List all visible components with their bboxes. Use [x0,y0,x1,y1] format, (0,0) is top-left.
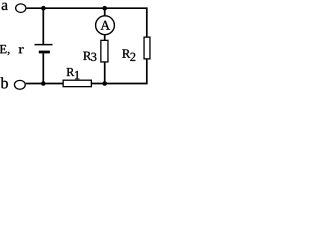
resistor R1 [63,80,91,86]
wire bottom bus left segment [26,83,63,85]
wire R3 bottom lead [104,62,106,84]
terminal b [14,80,25,89]
label R1 [67,68,75,76]
wire right side down to R2 [146,7,148,36]
wire R2 bottom to bottom bus [146,59,148,85]
wire top bus [27,7,147,9]
label E, r [0,45,9,55]
battery E,r long plate [35,44,53,46]
label b [1,77,8,88]
label a [2,3,8,10]
wire bottom bus right segment [92,83,147,85]
junction dot top ammeter node [102,6,107,11]
wire ammeter to R3 [104,35,106,41]
resistor R2 [144,37,150,59]
terminal a [16,4,26,13]
junction dot top battery node [41,6,46,11]
ammeter A [96,16,115,35]
resistor R3 [101,40,108,62]
wire top to ammeter [104,8,106,16]
wire battery top lead [42,8,44,44]
junction dot bottom battery node [41,81,46,86]
label R2 [122,49,130,57]
battery E,r short thick plate [39,51,50,54]
wire battery bottom lead [42,53,44,83]
junction dot bottom R3 node [102,81,107,86]
label R3 [83,52,91,60]
